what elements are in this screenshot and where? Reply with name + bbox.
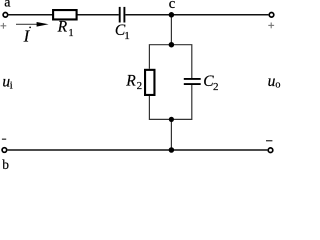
svg-text:1: 1 [68, 28, 73, 39]
svg-text:b: b [2, 157, 9, 170]
svg-text:a: a [4, 0, 11, 11]
svg-text:i: i [10, 80, 13, 91]
svg-text:R: R [57, 19, 68, 36]
svg-text:I: I [23, 26, 31, 45]
svg-text:2: 2 [213, 81, 219, 93]
svg-text:1: 1 [124, 30, 130, 42]
svg-text:o: o [275, 79, 280, 90]
svg-text:c: c [169, 0, 175, 12]
svg-text:R: R [125, 73, 136, 90]
svg-text:2: 2 [137, 80, 143, 92]
